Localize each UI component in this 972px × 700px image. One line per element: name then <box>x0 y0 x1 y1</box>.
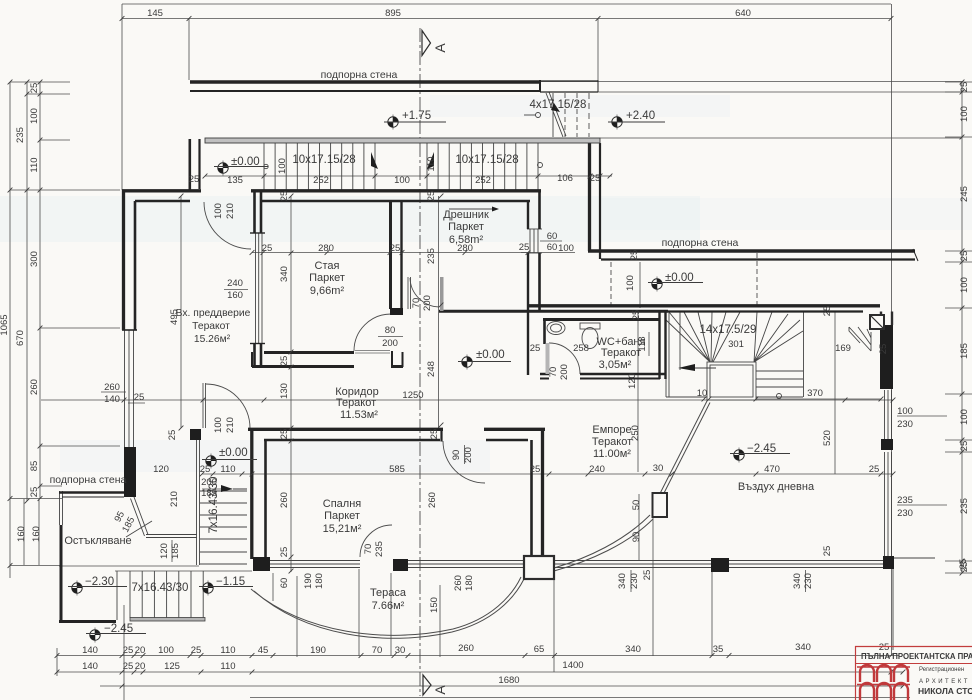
svg-text:190: 190 <box>310 645 326 656</box>
svg-text:235: 235 <box>959 498 970 514</box>
svg-text:11.00м²: 11.00м² <box>593 448 631 460</box>
svg-text:25: 25 <box>631 310 642 321</box>
svg-text:118: 118 <box>637 336 648 351</box>
svg-text:200: 200 <box>382 338 398 349</box>
svg-text:9,66m²: 9,66m² <box>310 285 345 297</box>
svg-text:60: 60 <box>547 231 558 242</box>
svg-text:160: 160 <box>16 526 27 542</box>
svg-text:85: 85 <box>29 461 40 472</box>
svg-text:Теракот: Теракот <box>601 347 641 359</box>
svg-text:Спалня: Спалня <box>323 498 362 510</box>
svg-text:210: 210 <box>225 417 236 433</box>
svg-text:230: 230 <box>897 419 913 430</box>
svg-text:200: 200 <box>463 447 474 463</box>
svg-text:Въздух дневна: Въздух дневна <box>738 481 815 493</box>
svg-text:Вх. преддверие: Вх. преддверие <box>176 308 251 319</box>
svg-text:25: 25 <box>29 83 40 94</box>
svg-text:670: 670 <box>15 330 26 346</box>
svg-text:25: 25 <box>822 546 833 557</box>
svg-text:25: 25 <box>279 191 290 202</box>
svg-text:150: 150 <box>429 597 440 613</box>
svg-text:90: 90 <box>631 532 642 543</box>
svg-text:140: 140 <box>82 661 98 672</box>
svg-text:260: 260 <box>29 379 40 395</box>
svg-text:25: 25 <box>958 559 969 570</box>
svg-text:Паркет: Паркет <box>324 510 360 522</box>
svg-text:подпорна стена: подпорна стена <box>662 237 739 249</box>
svg-text:±0.00: ±0.00 <box>665 272 694 284</box>
svg-text:185: 185 <box>170 543 181 559</box>
svg-text:Стая: Стая <box>315 260 340 272</box>
svg-text:340: 340 <box>795 642 811 653</box>
svg-text:25: 25 <box>869 464 880 475</box>
svg-text:25: 25 <box>519 242 530 253</box>
svg-text:106: 106 <box>557 173 573 184</box>
svg-text:Теракот: Теракот <box>192 321 230 332</box>
svg-text:3,05м²: 3,05м² <box>599 359 632 371</box>
svg-text:160: 160 <box>227 290 243 301</box>
svg-text:15.26м²: 15.26м² <box>194 334 231 345</box>
svg-text:110: 110 <box>220 464 235 475</box>
svg-text:100: 100 <box>277 158 288 174</box>
svg-text:25: 25 <box>29 487 40 498</box>
svg-text:100: 100 <box>897 406 913 417</box>
svg-text:185: 185 <box>201 488 217 499</box>
svg-text:340: 340 <box>625 644 641 655</box>
svg-text:70: 70 <box>372 645 383 656</box>
svg-text:260: 260 <box>458 643 474 654</box>
svg-text:±0.00: ±0.00 <box>476 349 505 361</box>
svg-text:−2.30: −2.30 <box>85 576 114 588</box>
svg-text:895: 895 <box>385 8 401 19</box>
svg-text:100: 100 <box>959 106 970 122</box>
svg-text:100: 100 <box>959 277 970 293</box>
svg-text:25: 25 <box>279 429 290 440</box>
svg-text:подпорна стена: подпорна стена <box>50 474 127 486</box>
svg-text:25: 25 <box>530 343 541 354</box>
svg-text:252: 252 <box>313 175 329 186</box>
svg-text:200: 200 <box>559 364 570 380</box>
svg-text:1400: 1400 <box>562 660 583 671</box>
svg-text:200: 200 <box>422 295 433 311</box>
svg-text:25: 25 <box>429 429 440 440</box>
svg-text:370: 370 <box>807 388 823 399</box>
svg-text:25: 25 <box>530 464 541 475</box>
svg-text:11.53м²: 11.53м² <box>340 409 378 421</box>
svg-text:135: 135 <box>227 175 243 186</box>
svg-text:+2.40: +2.40 <box>626 110 655 122</box>
svg-text:70: 70 <box>548 367 559 378</box>
svg-text:25: 25 <box>167 430 178 441</box>
svg-text:10x17.15/28: 10x17.15/28 <box>292 154 355 166</box>
svg-text:7.66м²: 7.66м² <box>372 600 405 612</box>
svg-text:Дрешник: Дрешник <box>443 209 489 221</box>
svg-text:110: 110 <box>29 157 40 172</box>
svg-text:АРХИТЕКТ: АРХИТЕКТ <box>919 679 970 685</box>
svg-text:1065: 1065 <box>0 314 10 335</box>
svg-text:520: 520 <box>822 430 833 446</box>
svg-text:210: 210 <box>225 203 236 219</box>
svg-text:280: 280 <box>318 243 334 254</box>
svg-text:240: 240 <box>589 464 605 475</box>
svg-text:25: 25 <box>279 547 290 558</box>
svg-text:−2.45: −2.45 <box>747 443 776 455</box>
svg-text:145: 145 <box>147 8 163 19</box>
svg-text:50: 50 <box>631 500 642 511</box>
svg-text:30: 30 <box>395 645 406 656</box>
svg-text:230: 230 <box>803 573 814 589</box>
svg-text:14x17.5/29: 14x17.5/29 <box>700 324 757 336</box>
svg-text:110: 110 <box>220 645 235 656</box>
svg-text:70: 70 <box>411 298 422 309</box>
svg-text:340: 340 <box>792 573 803 589</box>
svg-text:230: 230 <box>629 573 640 589</box>
svg-text:+1.75: +1.75 <box>402 110 431 122</box>
svg-text:140: 140 <box>82 645 98 656</box>
svg-text:4x17.15/28: 4x17.15/28 <box>530 99 587 111</box>
svg-text:80: 80 <box>385 325 396 336</box>
svg-text:258: 258 <box>573 343 589 354</box>
svg-text:7x16.43/30: 7x16.43/30 <box>132 582 189 594</box>
svg-text:Остъкляване: Остъкляване <box>64 535 131 547</box>
svg-text:Паркет: Паркет <box>448 221 484 233</box>
svg-text:100: 100 <box>625 275 636 291</box>
svg-text:15,21м²: 15,21м² <box>323 523 362 535</box>
svg-text:A: A <box>432 685 448 695</box>
svg-text:25: 25 <box>123 645 134 656</box>
svg-text:340: 340 <box>279 266 290 282</box>
svg-text:110: 110 <box>220 661 235 672</box>
svg-text:100: 100 <box>959 409 970 425</box>
svg-text:100: 100 <box>158 645 174 656</box>
svg-text:130: 130 <box>279 383 290 399</box>
svg-text:260: 260 <box>427 492 438 508</box>
svg-text:245: 245 <box>959 186 970 202</box>
svg-text:25: 25 <box>390 243 401 254</box>
svg-text:169: 169 <box>835 343 851 354</box>
svg-text:235: 235 <box>897 495 913 506</box>
svg-text:25: 25 <box>642 570 653 581</box>
svg-text:25: 25 <box>426 191 437 202</box>
svg-text:±0.00: ±0.00 <box>219 447 248 459</box>
svg-text:65: 65 <box>534 644 545 655</box>
svg-text:180: 180 <box>314 573 325 589</box>
svg-text:585: 585 <box>389 464 405 475</box>
svg-text:Паркет: Паркет <box>309 272 345 284</box>
svg-text:200: 200 <box>201 477 217 488</box>
svg-text:25: 25 <box>134 392 145 403</box>
svg-text:160: 160 <box>31 526 42 542</box>
svg-text:100: 100 <box>558 243 574 254</box>
svg-text:180: 180 <box>464 575 475 591</box>
svg-text:250: 250 <box>630 425 641 441</box>
svg-text:Регистрационен: Регистрационен <box>919 667 964 673</box>
svg-text:100: 100 <box>213 203 224 219</box>
svg-text:25: 25 <box>123 661 134 672</box>
svg-text:25: 25 <box>189 174 200 185</box>
svg-text:ПЪЛНА ПРОЕКТАНТСКА ПРАВО: ПЪЛНА ПРОЕКТАНТСКА ПРАВО <box>861 652 972 661</box>
svg-text:−2.45: −2.45 <box>104 623 133 635</box>
svg-text:300: 300 <box>29 251 40 267</box>
svg-text:Емпоре: Емпоре <box>592 424 631 436</box>
svg-text:НИКОЛА СТОЙЧЕВ: НИКОЛА СТОЙЧЕВ <box>918 685 972 696</box>
svg-text:1680: 1680 <box>498 675 519 686</box>
svg-text:A: A <box>432 43 448 53</box>
svg-text:Теракот: Теракот <box>336 397 376 409</box>
svg-text:125: 125 <box>164 661 180 672</box>
svg-text:70: 70 <box>363 544 374 555</box>
svg-text:235: 235 <box>15 127 26 143</box>
svg-text:100: 100 <box>394 175 410 186</box>
svg-text:340: 340 <box>617 573 628 589</box>
svg-text:640: 640 <box>735 8 751 19</box>
svg-text:подпорна стена: подпорна стена <box>321 69 398 81</box>
svg-text:10x17.15/28: 10x17.15/28 <box>455 154 518 166</box>
svg-text:20: 20 <box>135 661 146 672</box>
svg-text:25: 25 <box>191 645 202 656</box>
svg-text:470: 470 <box>764 464 780 475</box>
svg-text:260: 260 <box>279 492 290 508</box>
svg-text:100: 100 <box>29 108 40 124</box>
svg-text:120: 120 <box>159 543 170 559</box>
svg-text:45: 45 <box>258 645 269 656</box>
svg-text:140: 140 <box>104 394 120 405</box>
svg-text:25: 25 <box>822 306 833 317</box>
svg-text:185: 185 <box>959 343 970 359</box>
svg-text:1250: 1250 <box>402 390 423 401</box>
svg-text:120: 120 <box>627 373 638 389</box>
svg-text:25: 25 <box>279 356 290 367</box>
svg-text:25: 25 <box>200 464 211 475</box>
svg-text:190: 190 <box>303 573 314 589</box>
svg-text:±0.00: ±0.00 <box>231 156 260 168</box>
svg-text:235: 235 <box>426 248 437 264</box>
svg-text:−1.15: −1.15 <box>216 576 245 588</box>
svg-text:235: 235 <box>374 541 385 557</box>
svg-text:260: 260 <box>104 382 120 393</box>
svg-text:230: 230 <box>897 508 913 519</box>
svg-text:100: 100 <box>213 417 224 433</box>
svg-text:25: 25 <box>878 344 889 355</box>
svg-text:301: 301 <box>728 339 744 350</box>
svg-text:248: 248 <box>426 361 437 377</box>
svg-text:30: 30 <box>653 463 664 474</box>
svg-text:120: 120 <box>153 464 169 475</box>
svg-text:495: 495 <box>169 309 180 325</box>
svg-text:110: 110 <box>426 156 437 171</box>
svg-text:Теракот: Теракот <box>592 436 632 448</box>
svg-text:Тераса: Тераса <box>370 587 407 599</box>
svg-text:60: 60 <box>279 578 290 589</box>
svg-text:240: 240 <box>227 278 243 289</box>
svg-text:252: 252 <box>475 175 491 186</box>
svg-text:260: 260 <box>453 575 464 591</box>
svg-text:60: 60 <box>547 242 558 253</box>
svg-text:25: 25 <box>629 250 640 261</box>
svg-text:90: 90 <box>451 450 462 461</box>
svg-text:210: 210 <box>169 491 180 507</box>
